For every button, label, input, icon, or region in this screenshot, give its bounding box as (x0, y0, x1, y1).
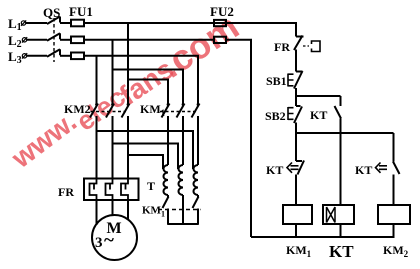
contactor KM2 contact2 (106, 103, 114, 178)
relay KT delayed NC symbol arrow (287, 163, 299, 173)
relay FR element2 (106, 179, 113, 201)
svg-text:L1: L1 (8, 16, 22, 33)
svg-text:3: 3 (95, 235, 103, 251)
relay KT delayed NO contact (393, 133, 400, 205)
wire drop L1 to KM2 (127, 23, 129, 104)
coil KM1 (283, 205, 312, 224)
relay KT parallel contact (NO) (335, 96, 342, 133)
svg-text:FR: FR (58, 185, 74, 199)
wire KT coil branch (340, 133, 342, 205)
svg-text:~: ~ (104, 230, 114, 251)
contactor KM1 contact1 (162, 103, 170, 165)
relay FR box (84, 179, 139, 201)
wire QS to FU1 row3 (60, 55, 71, 57)
motor M circle (92, 215, 137, 260)
wire junction bar y133 (296, 132, 394, 134)
fuse FU1 pole1 (71, 20, 84, 27)
svg-text:SB2: SB2 (265, 109, 286, 123)
fuse FU2 upper (214, 20, 226, 26)
switch QS pole 2 blade (47, 33, 60, 41)
svg-text:KT: KT (355, 163, 372, 177)
svg-text:KM1: KM1 (142, 205, 165, 219)
wire tap L2 to KM1 contact2 (113, 70, 184, 105)
wire star bar (167, 223, 199, 225)
wire QS to FU1 row2 (60, 39, 71, 41)
fuse FU1 pole3 (71, 53, 84, 60)
wire KT coil to bottom (340, 224, 342, 237)
wire QS to FU1 row1 (60, 22, 71, 24)
coil KT (323, 205, 354, 224)
svg-text:FU2: FU2 (210, 4, 234, 19)
wire FU1 row2 to FU2b (84, 39, 214, 41)
wire top to FR contact (295, 22, 297, 37)
contactor KM1 contact2 (177, 103, 185, 165)
svg-text:FR: FR (274, 40, 290, 54)
wire FU1 row1 to right (84, 22, 296, 24)
button SB2 actuator E (288, 107, 294, 120)
wire L3 to QS (27, 55, 47, 57)
wire branch to KT parallel (296, 95, 341, 97)
svg-text:KM1: KM1 (286, 243, 312, 259)
wire FR to motor 3 (127, 200, 129, 220)
relay KT delayed NO symbol arrow (376, 163, 388, 173)
contactor KM2 linkage dashed (91, 111, 127, 113)
watermark www.elecfans.com (5, 6, 246, 175)
button SB2 contact (NO) (294, 106, 302, 133)
wire FR to motor 2 (112, 200, 114, 216)
svg-text:KT: KT (329, 242, 354, 261)
coil KM2 (378, 205, 410, 224)
switch QS pole 1 blade (47, 17, 60, 25)
switch QS linkage dashed (53, 18, 55, 62)
contactor KM1 star contact1 (163, 195, 169, 224)
svg-text:KM2: KM2 (383, 243, 409, 259)
wire KM2 coil to bottom (393, 224, 395, 237)
relay FR contact dash (303, 45, 309, 47)
wire tap motor3 to T coil1 (128, 155, 163, 169)
relay KT delayed NC contact (296, 133, 304, 205)
svg-text:KT: KT (310, 108, 327, 122)
wire FU1 row3 to KM1 feed corner (84, 56, 198, 104)
wire tap motor2 to T coil2 (113, 144, 179, 170)
contactor KM1 star contact3 (193, 195, 199, 224)
button SB1 contact (NC) (294, 71, 303, 96)
svg-text:L3: L3 (8, 49, 22, 66)
transformer T coil2 (179, 165, 184, 195)
relay FR actuator symbol (312, 41, 321, 52)
wire drop L3 to KM2 (96, 56, 98, 104)
contactor KM1 linkage dashed (160, 111, 196, 113)
fuse FU1 pole2 (71, 37, 84, 44)
svg-text:FU1: FU1 (69, 4, 93, 19)
contactor KM1 star contact2 wire (182, 195, 184, 224)
fuse FU2 lower (214, 37, 226, 43)
contactor KM1 star linkage dashed (158, 209, 201, 211)
wire L1 to QS (26, 22, 47, 24)
switch QS pole 3 blade (47, 49, 60, 57)
wire FU2 lower to control return (226, 40, 251, 237)
wire L2 to QS (27, 39, 47, 41)
relay FR element3 (121, 179, 128, 201)
svg-text:T: T (147, 179, 155, 193)
contactor KM2 contact3 (122, 103, 130, 178)
wire tap motor1 to T coil3 (97, 131, 194, 169)
svg-text:L2: L2 (8, 33, 22, 50)
svg-text:SB1: SB1 (266, 74, 287, 88)
wire junction SB1-SB2 (295, 96, 297, 106)
button SB1 actuator E (288, 74, 294, 87)
coil KT hourglass marks (327, 207, 336, 223)
relay FR element1 (90, 179, 97, 201)
wire tap L1 to KM1 contact1 (128, 80, 168, 105)
svg-text:KM2: KM2 (64, 102, 91, 116)
wire KM1 coil to bottom (295, 224, 297, 237)
wire drop L2 to KM2 (112, 40, 114, 104)
contactor KM2 contact1 (90, 103, 98, 178)
transformer T coil1 (164, 165, 169, 195)
relay FR contact (NC) (294, 36, 304, 72)
transformer T coil3 (194, 165, 199, 195)
svg-text:KT: KT (266, 163, 283, 177)
wire FR to motor 1 (96, 200, 98, 225)
contactor KM1 contact3 (192, 103, 200, 165)
wire bottom return bar (251, 236, 395, 238)
